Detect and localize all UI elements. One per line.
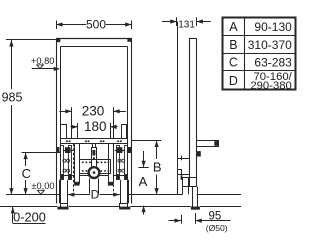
svg-text:63-283: 63-283 [254,55,292,69]
dim D left arrow [68,193,75,197]
side collar lines to floor [182,187,184,195]
dim B vertical line lower [156,175,158,195]
dim 180 left tick [77,123,79,131]
left bracket rails [61,146,64,180]
side foot dark [191,207,200,210]
svg-text:A: A [139,174,148,189]
lower crossbar bottom edge segments [61,175,75,177]
svg-text:B: B [153,159,162,174]
left hanger bracket on crossbar [60,124,62,139]
level mark +0,80 leader line with arrow [32,68,54,70]
svg-text:95: 95 [209,210,222,222]
svg-text:A: A [229,20,238,34]
svg-text:D: D [91,187,100,201]
raw floor line [0,206,57,208]
side lower collar [183,178,197,187]
dim C vertical line lower [25,180,27,195]
right hanger bracket on crossbar [121,124,123,139]
left bracket feet [61,174,64,179]
center mounting plate [80,160,111,174]
drain connector center dot [93,171,96,174]
dim 95 line and right arrow [195,220,230,222]
dim B top extension line [132,140,162,142]
dim A top tick [138,167,148,169]
svg-text:C: C [22,166,31,181]
dim 500 line right part with arrow [106,24,132,26]
frame left rail [56,38,58,204]
wall bracket upper tick [181,156,183,161]
right foot plate [120,204,128,208]
right inner tube [108,144,110,184]
dim 180 extension lines down [77,131,79,139]
right rail attachment mark [128,147,131,153]
center bolt channel into plate [91,159,93,166]
dim 230 right arrow [113,111,126,113]
dim 131 left tick [176,17,178,26]
svg-text:(Ø50): (Ø50) [206,223,228,233]
table outer border [223,18,296,90]
dim A bottom up arrow [143,206,145,215]
left rail attachment mark [57,147,60,153]
dim 0-200 arrow to raw floor [12,207,14,223]
center bolt dark shaft [92,150,95,156]
table row lines [223,35,296,37]
svg-text:D: D [229,74,238,88]
dim 131 left arrow [162,21,177,23]
svg-text:230: 230 [82,103,105,118]
left foot plate [61,204,68,208]
center bolt link to crossbar [92,144,94,148]
svg-text:±0,00: ±0,00 [31,181,54,191]
crossbar bottom edge [61,143,128,145]
dim 95 left arrow [169,220,182,222]
frame right rail [131,38,133,204]
dim 985 vertical line upper [11,40,13,89]
dim 230 left arrow [60,111,72,113]
left bracket bolt cross [65,147,71,153]
finished floor line ±0,00 [6,194,59,196]
dim 985 top extension line [6,39,56,41]
left inner tube [74,144,76,184]
center plate rivets bottom row [82,170,84,172]
side attachment block [197,151,201,156]
frame top bar inner edge [61,46,128,48]
wall bracket side view [178,159,190,175]
right bracket bolt cross [117,147,123,153]
dim 500 right extension tick [131,21,133,30]
left bracket holes [63,159,66,162]
dim 180 right arrow [110,126,117,128]
dim 95 extension ticks [181,215,183,224]
level mark ±0,00 triangle [37,190,44,194]
wall bracket lower stub dark [181,175,183,180]
svg-text:290-380: 290-380 [250,80,291,92]
dim D right arrow [113,193,120,197]
water supply stub [197,141,219,147]
left leg tube [59,180,61,203]
wall line [177,22,179,195]
top left corner bolt [57,39,61,43]
crossbar bolt dots [66,140,68,142]
table column divider [244,18,246,90]
svg-text:180: 180 [84,119,107,134]
drain connector ring [89,167,100,178]
crossbar top edge [61,138,128,140]
right hidden line dashed [113,144,115,192]
drain pipe below [89,178,91,193]
right bracket rails [117,146,120,180]
dim A down arrow [143,151,145,167]
side lower leg [192,187,194,207]
right leg tube [120,180,122,203]
svg-text:90-130: 90-130 [254,20,292,34]
right bracket feet [116,174,119,179]
dim 230 right tick [113,107,115,115]
right bracket holes [118,159,121,162]
dim 131 right tick [196,17,198,26]
dim C top extension line [22,152,62,154]
wall bracket anchor square [178,170,182,175]
center plate rivets top row [82,161,84,163]
dim C vertical line upper [25,153,27,166]
svg-text:310-370: 310-370 [248,38,292,52]
left foot base dark [57,207,68,210]
level mark +0,80 triangle [37,65,44,69]
frame top bar outer edge [56,38,132,40]
svg-text:500: 500 [86,18,106,32]
svg-text:C: C [229,55,238,69]
svg-text:B: B [229,38,237,52]
dim B vertical line upper [156,141,158,160]
right inner tube cap [108,182,113,186]
dim 230 left tick [71,107,73,115]
svg-text:131: 131 [178,20,195,31]
center bolt housing [92,148,97,160]
side profile tube [189,38,191,187]
dim 500 left extension tick [56,21,58,30]
dim 985 vertical line lower [11,105,13,195]
dim 230 extension lines down [71,115,73,138]
left hidden line dashed [73,144,75,192]
svg-text:985: 985 [2,91,23,105]
right foot base dark [119,207,130,210]
left inner tube cap [74,182,79,186]
dim 180 left arrow [71,126,78,128]
dim 131 right arrow [196,21,210,23]
svg-text:0-200: 0-200 [13,210,46,225]
top right corner bolt [127,38,131,42]
dim 500 line left part with arrow [56,24,86,26]
dim 180 right tick [110,123,112,131]
